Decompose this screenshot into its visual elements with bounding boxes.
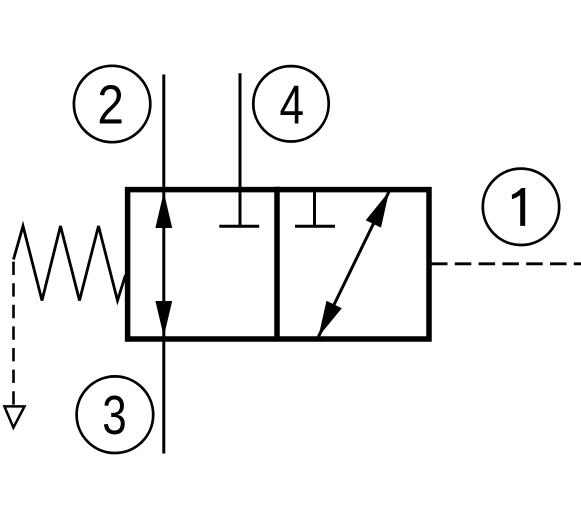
port 4 line	[239, 73, 242, 226]
pilot drain dashed line	[12, 262, 15, 405]
svg-text:2: 2	[97, 74, 124, 136]
flow arrowhead down (left position)	[155, 301, 172, 337]
pilot line to port 1 (dashed)	[431, 262, 581, 265]
port circle 2	[74, 66, 150, 142]
port 2 line	[162, 75, 165, 454]
svg-text:3: 3	[102, 384, 126, 446]
flow arrowhead up (left position)	[155, 192, 172, 228]
position divider	[274, 187, 280, 341]
svg-text:4: 4	[279, 74, 303, 136]
port circle 3	[77, 376, 154, 453]
port circle 1	[483, 169, 559, 245]
valve body frame	[128, 190, 429, 339]
diagonal arrowhead lower	[318, 301, 341, 337]
blocked port T (left position)	[219, 225, 259, 228]
port circle 4	[253, 66, 328, 141]
blocked port stem (right position)	[313, 189, 316, 226]
blocked port T bar (right position)	[295, 225, 335, 228]
diagonal arrowhead upper	[366, 192, 389, 228]
spring	[14, 226, 126, 301]
diagonal flow arrow shaft (right position)	[318, 192, 389, 337]
drain hollow arrowhead	[4, 406, 24, 427]
